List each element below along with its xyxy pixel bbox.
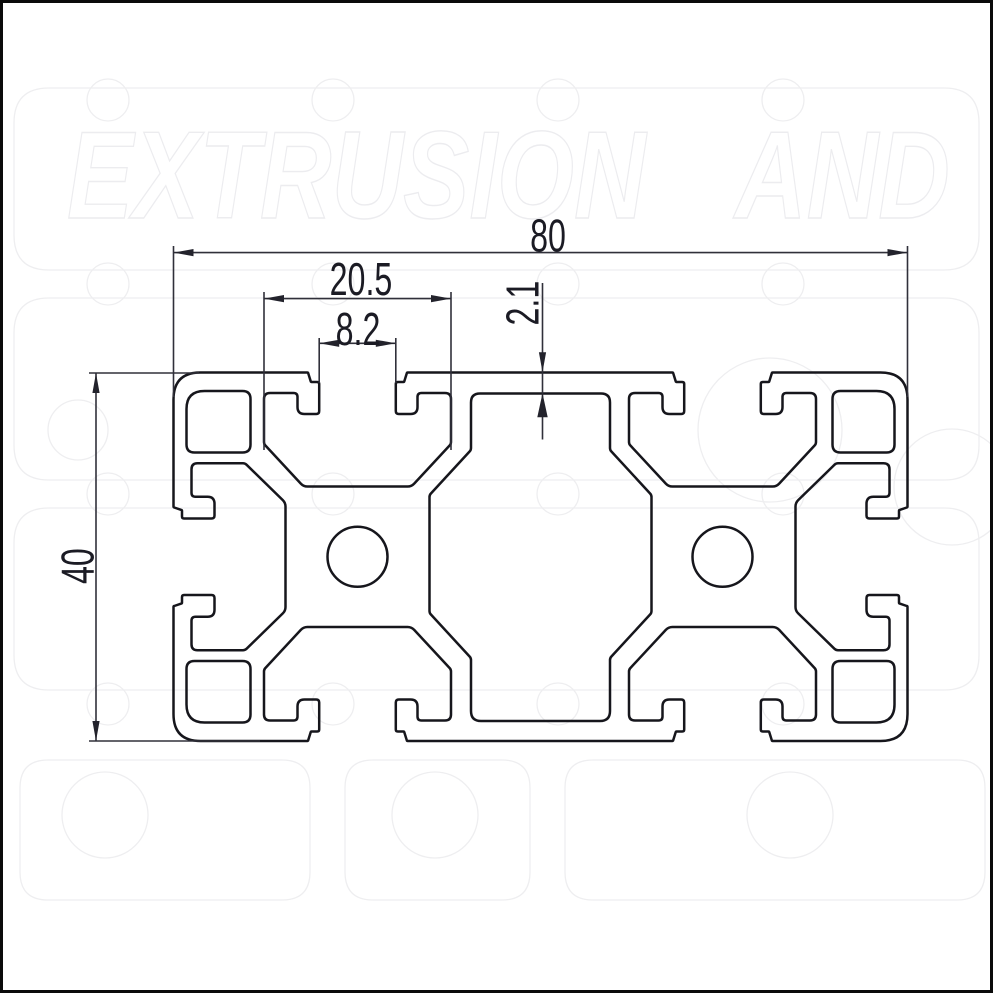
corner cavity bottom-right <box>833 661 895 723</box>
dimension arrowheads <box>92 249 907 741</box>
dimension texts <box>53 211 566 584</box>
dim 80 extension line left <box>173 246 175 397</box>
dim 80 extension line right <box>907 246 909 397</box>
dim 80 line <box>174 252 908 254</box>
middle cavity <box>430 394 652 722</box>
dim 20.5 extension line left <box>263 292 265 450</box>
watermark band row 4b <box>345 760 530 900</box>
dim 40 extension line top <box>89 372 199 374</box>
dim 8.2 extension line right <box>395 338 397 383</box>
dim 2.1 leader line <box>542 283 544 440</box>
right center bore hole <box>693 527 753 587</box>
corner cavity top-right <box>833 391 895 453</box>
dim 20.5 extension line right <box>450 292 452 450</box>
watermark band row 2 <box>14 298 979 480</box>
svg-text:8.2: 8.2 <box>336 304 381 355</box>
corner cavity bottom-left <box>187 661 251 723</box>
watermark band row 4c <box>565 760 985 900</box>
dim 8.2 extension line left <box>318 338 320 383</box>
left center bore hole <box>328 527 388 587</box>
watermark band row 4a <box>20 760 310 900</box>
dim 8.2 line <box>319 342 396 344</box>
dim 40 extension line bottom <box>89 740 260 742</box>
watermark band row 1 <box>14 88 979 270</box>
watermark band row 3 <box>14 508 979 690</box>
corner cavity top-left <box>187 391 251 453</box>
outer boundary of extrusion profile <box>174 373 908 742</box>
profile drawing <box>174 373 908 742</box>
watermark circles <box>48 400 108 460</box>
svg-text:2.1: 2.1 <box>498 281 549 326</box>
dimensions <box>89 246 908 741</box>
svg-text:40: 40 <box>53 548 104 584</box>
dim 20.5 line <box>264 298 451 300</box>
svg-text:AND: AND <box>732 105 950 244</box>
svg-text:20.5: 20.5 <box>330 254 393 305</box>
watermark keyhole blobs <box>87 79 804 725</box>
svg-text:80: 80 <box>530 211 566 262</box>
dim 40 line <box>95 373 97 741</box>
